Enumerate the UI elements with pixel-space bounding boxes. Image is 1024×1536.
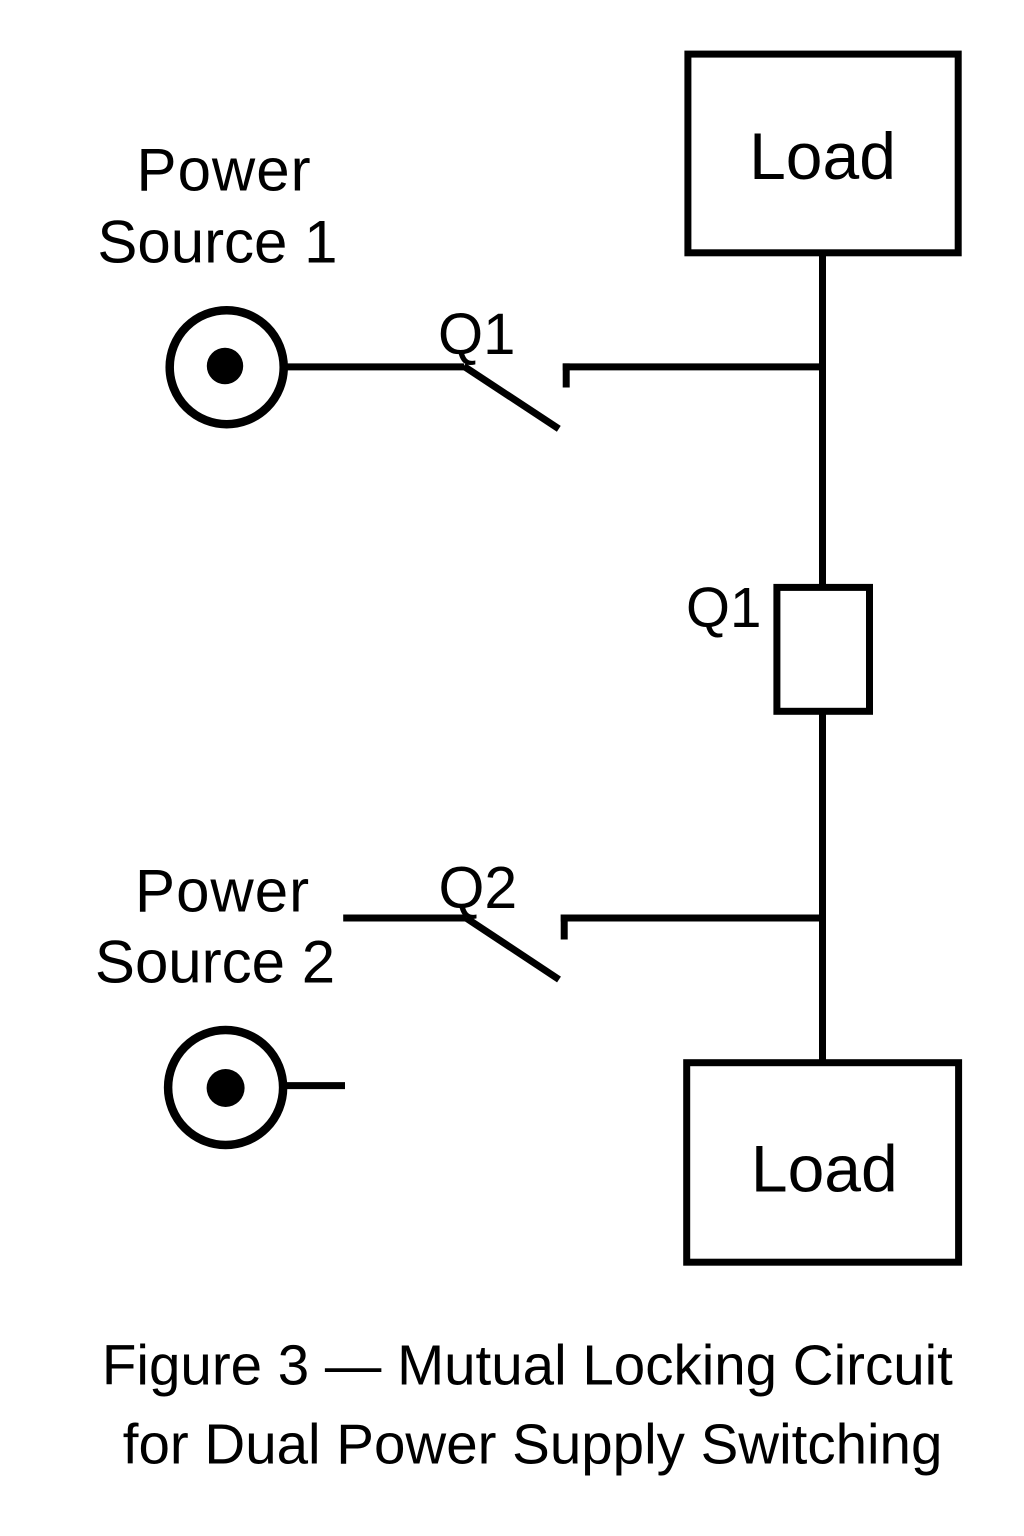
power source PS1 <box>170 310 284 424</box>
svg-text:Source 2: Source 2 <box>95 928 335 995</box>
svg-text:Power: Power <box>135 858 310 925</box>
label Power Source 1 <box>97 137 337 276</box>
switch Q1 fixed contact <box>563 363 570 387</box>
label Power Source 2 <box>95 858 335 996</box>
svg-text:Source 1: Source 1 <box>97 208 337 275</box>
svg-text:Q1: Q1 <box>686 576 761 639</box>
svg-text:Power: Power <box>137 137 312 204</box>
wire: PS1 to switch Q1 <box>285 363 464 370</box>
svg-text:Load: Load <box>749 119 896 193</box>
load box (bottom) <box>687 1063 959 1263</box>
svg-text:Load: Load <box>751 1132 898 1206</box>
transistor Q1 box <box>777 587 870 711</box>
svg-text:Q2: Q2 <box>439 855 518 921</box>
caption <box>102 1334 953 1476</box>
wire: switch Q1 to node <box>563 363 826 370</box>
power source PS2 <box>168 1030 283 1145</box>
switch Q1 blade <box>464 366 559 429</box>
wire: switch Q2 to node <box>561 915 826 922</box>
switch Q2 fixed contact <box>561 915 568 940</box>
wire: to switch Q2 <box>343 915 466 922</box>
svg-text:for Dual Power Supply Switchin: for Dual Power Supply Switching <box>123 1413 943 1476</box>
svg-text:Q1: Q1 <box>438 302 515 367</box>
wire: PS2 stub <box>284 1082 345 1089</box>
load box (top) <box>688 54 958 253</box>
svg-text:Figure 3 — Mutual Locking Circ: Figure 3 — Mutual Locking Circuit <box>102 1334 953 1397</box>
switch Q2 blade <box>466 918 559 980</box>
wire: top load to Q1 box <box>819 253 826 587</box>
wire: Q1 box to bottom load <box>819 711 826 1062</box>
